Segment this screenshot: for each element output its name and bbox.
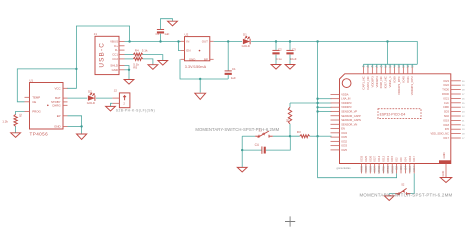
svg-text:IO4: IO4 [403, 157, 407, 162]
esp32 name tag block [439, 160, 451, 163]
svg-text:GND: GND [189, 57, 195, 61]
capacitor C4 [261, 146, 263, 153]
connector J2 pin 2 [112, 102, 119, 104]
esp32 top pin VDD3P3_CPU [411, 64, 413, 67]
ground for R5 [148, 65, 158, 70]
origin crosshair [285, 216, 295, 226]
connector J1 USB-C box [95, 36, 119, 74]
svg-text:MTDI: MTDI [382, 166, 386, 173]
junction SHLD-GND [128, 69, 130, 71]
charger pin VCC [63, 87, 68, 89]
ground for charger [77, 134, 87, 139]
esp32 right pin SD2 [451, 115, 461, 117]
svg-text:0.1u: 0.1u [276, 57, 282, 61]
svg-text:CC2: CC2 [112, 57, 118, 61]
connector J2 pin 1 [112, 97, 119, 99]
svg-text:CLK: CLK [444, 101, 449, 105]
svg-text:MTMS: MTMS [377, 166, 381, 174]
svg-text:VCC: VCC [54, 86, 60, 90]
wire R1 top to 3V3 [290, 102, 318, 104]
svg-text:RXD0: RXD0 [442, 92, 449, 96]
svg-text:TXD0: TXD0 [442, 88, 449, 92]
esp32 top pin VDD3P3 [376, 64, 378, 67]
svg-text:C2: C2 [278, 47, 282, 51]
regulator pin OUT [210, 40, 214, 42]
esp32 bottom pin IO13 [387, 164, 389, 174]
esp32 right pin IO5 [451, 128, 461, 130]
svg-text:CMD: CMD [443, 105, 449, 109]
wire R4 to ground [143, 55, 163, 61]
svg-text:IO26: IO26 [368, 155, 372, 161]
junction VDD branch 1 [316, 98, 318, 100]
wire EN tie to IN rail [179, 42, 181, 51]
junction charger TEMP/CE branch [75, 68, 77, 70]
svg-text:IO21: IO21 [443, 96, 449, 100]
svg-text:SENSOR_CAPP: SENSOR_CAPP [341, 114, 361, 118]
wire EN net to pin [318, 135, 332, 137]
esp32 right pin IO23 [451, 80, 461, 82]
wire D2 to J2 [96, 97, 113, 99]
svg-text:VDDA_1: VDDA_1 [388, 76, 392, 88]
svg-text:IO33: IO33 [341, 144, 347, 148]
junction 3V3 vertical tap [316, 40, 318, 42]
svg-text:1uF: 1uF [231, 76, 236, 80]
svg-text:GND: GND [441, 171, 445, 177]
esp32 right pin CMD [451, 106, 461, 108]
svg-text:J1: J1 [94, 32, 98, 36]
wire VDD branch 1 [318, 98, 332, 100]
esp32 U3 outline [340, 74, 451, 164]
wire to charger TEMP/CE [17, 69, 76, 102]
charger pin GND [63, 125, 68, 127]
ground for C3 [285, 65, 295, 70]
junction regulator ground net [199, 78, 201, 80]
esp32 dashed value box [378, 109, 421, 119]
svg-text:10uF: 10uF [290, 57, 297, 61]
svg-text:SENSOR_CAPN: SENSOR_CAPN [341, 118, 361, 122]
svg-text:5.1k: 5.1k [142, 48, 148, 52]
esp32 left pin VDD3P3 [331, 102, 340, 104]
esp32 bottom pin IO14 [378, 164, 380, 174]
svg-text:IO22: IO22 [443, 83, 449, 87]
svg-text:IO32: IO32 [341, 139, 347, 143]
charger pin CE [25, 101, 30, 103]
esp32 bottom pin IO17 [413, 164, 415, 174]
junction C2 tap [275, 40, 277, 42]
svg-text:C4: C4 [255, 143, 259, 147]
svg-text:IO15: IO15 [390, 155, 394, 161]
svg-text:GOLD: GOLD [242, 44, 250, 48]
resistor R2 PROG 1.2k [16, 111, 25, 114]
svg-text:CHRG: CHRG [52, 103, 61, 107]
svg-text:IO23: IO23 [443, 79, 449, 83]
wire C5 top to ground [161, 19, 173, 30]
regulator U2 box [185, 37, 210, 61]
svg-text:TP4056: TP4056 [30, 132, 49, 137]
svg-text:VDDA: VDDA [341, 92, 348, 96]
svg-text:R1: R1 [285, 118, 289, 122]
svg-text:1.2k: 1.2k [2, 120, 8, 124]
svg-text:EN: EN [341, 127, 345, 131]
svg-text:EN: EN [186, 49, 190, 53]
wire C5 to rail [160, 34, 162, 42]
ground for PROG resistor [11, 133, 21, 138]
resistor R1 pullup [289, 103, 291, 107]
wire boot pin to switch [410, 173, 414, 193]
ground for R4 [158, 61, 168, 66]
svg-text:IO12: IO12 [381, 155, 385, 161]
svg-text:IO16: IO16 [408, 165, 412, 171]
wire SHLD to GND tie [125, 66, 130, 80]
wire CC1 to R4 [125, 54, 134, 56]
switch S2 momentary [395, 193, 399, 195]
svg-text:MOMENTARY-SWITCH-SPST-PTH-6.2M: MOMENTARY-SWITCH-SPST-PTH-6.2MM [360, 193, 453, 198]
svg-text:D1: D1 [243, 32, 247, 36]
svg-text:IO0: IO0 [399, 165, 403, 170]
esp32 right pin CLK [451, 102, 461, 104]
svg-text:R4: R4 [135, 48, 139, 52]
svg-text:U2: U2 [185, 32, 189, 36]
svg-text:VDD3P3_CPU: VDD3P3_CPU [410, 76, 414, 95]
wire C4 right [266, 136, 291, 150]
wire switch S2 to ground [389, 194, 395, 196]
esp32 top pin IO37_NC [385, 64, 387, 67]
svg-text:VDD_SDIO_NC: VDD_SDIO_NC [430, 132, 449, 136]
esp32 bottom pin IO15 [391, 164, 393, 174]
svg-text:MTDO: MTDO [390, 166, 394, 174]
regulator pin GND [181, 58, 185, 60]
svg-text:EP: EP [57, 114, 61, 118]
wire comb horizontal [364, 63, 418, 65]
esp32 left pin LNA_IN [331, 98, 340, 100]
wire VDD branch 3 [318, 106, 332, 108]
svg-text:U1: U1 [29, 78, 33, 82]
svg-text:MOMENTARY-SWITCH-SPST-PTH-6.2M: MOMENTARY-SWITCH-SPST-PTH-6.2MM [195, 127, 279, 132]
svg-text:VDD3P3: VDD3P3 [375, 76, 379, 88]
esp32 right pin RXD0 [451, 93, 461, 95]
esp32 bottom pin IO4 [404, 164, 406, 174]
svg-text:IO13: IO13 [386, 155, 390, 161]
esp32 left pin SENSOR_VN [331, 123, 340, 125]
svg-text:GND: GND [54, 125, 60, 129]
capacitor C2 0.1uF [275, 42, 277, 51]
charger pin EP [63, 115, 68, 117]
svg-text:MTCK: MTCK [386, 166, 390, 174]
svg-text:VDD3P3_RTC: VDD3P3_RTC [397, 76, 401, 95]
svg-text:gomunkolas: gomunkolas [337, 166, 352, 170]
esp32 pin1 circle [342, 79, 351, 88]
svg-text:C1: C1 [232, 67, 236, 71]
capacitor C1 1uF [227, 42, 229, 71]
svg-text:IO25: IO25 [364, 165, 368, 171]
esp32 left pin SENSOR_CAPN [331, 119, 340, 121]
junction VDD branch 4 [316, 110, 318, 112]
wire VBUS from J1 to rail [125, 41, 182, 43]
esp32 top pin VDD3P3_RTC [398, 64, 400, 67]
svg-text:IO25: IO25 [341, 148, 347, 152]
svg-text:IO0: IO0 [399, 157, 403, 162]
junction EN rail [177, 40, 179, 42]
esp32 bottom pin IO12 [382, 164, 384, 174]
svg-text:IO35: IO35 [341, 135, 347, 139]
esp32 right pin IO19 [451, 119, 461, 121]
svg-text:IO27: IO27 [373, 165, 377, 171]
wire 3V3 vertical to ESP32 left [318, 42, 397, 178]
ground for S2 [384, 196, 394, 201]
connector J2 box [119, 93, 129, 108]
resistor R3 [300, 135, 310, 138]
svg-text:CE: CE [32, 100, 36, 104]
ground for C5 [168, 21, 178, 26]
esp32 right pin IO18 [451, 124, 461, 126]
esp32 right pin IO21 [451, 97, 461, 99]
svg-text:IO41: IO41 [406, 76, 410, 83]
junction EN net [316, 135, 318, 137]
esp32 left pin SENSOR_CAPP [331, 115, 340, 117]
esp32 top pin VDD3P3 [371, 64, 373, 67]
svg-text:GND: GND [442, 152, 446, 158]
capacitor C5 1uF [157, 29, 164, 31]
svg-text:IO2: IO2 [395, 165, 399, 170]
svg-text:S2: S2 [401, 183, 405, 187]
charger pin CHRG [63, 104, 68, 106]
svg-text:IO33: IO33 [360, 165, 364, 171]
wire CC2 to R5 [125, 58, 134, 60]
junction C5 rail [159, 40, 161, 42]
esp32 top pin IO38_NC [380, 64, 382, 67]
junction VBUS-charger tap [128, 40, 130, 42]
svg-text:GND: GND [112, 68, 118, 72]
resistor R4 5.1k [133, 53, 143, 56]
svg-text:OUT: OUT [202, 39, 208, 43]
led D1 [243, 39, 250, 44]
wire GND pin tie [125, 69, 130, 71]
svg-text:IO17: IO17 [412, 165, 416, 171]
svg-text:VDD3P3: VDD3P3 [341, 101, 352, 105]
ground for regulator [195, 93, 206, 99]
wire OUT rail segment [214, 41, 243, 43]
svg-text:SD3: SD3 [444, 110, 450, 114]
svg-text:IO17: IO17 [443, 136, 449, 140]
svg-text:IO27: IO27 [373, 155, 377, 161]
wire C4 left [242, 149, 262, 151]
junction C3 tap [289, 40, 291, 42]
esp32 left pin VDDA [331, 93, 340, 95]
svg-text:R2: R2 [19, 113, 23, 117]
charger U1 box [30, 83, 64, 130]
svg-text:IO26: IO26 [368, 165, 372, 171]
esp32 top pin VDDA_1 [389, 64, 391, 67]
esp32 right pin IO22 [451, 84, 461, 86]
svg-text:IO2: IO2 [395, 157, 399, 162]
svg-text:IN: IN [186, 39, 189, 43]
esp32 top pin IO39 [394, 64, 396, 67]
esp32 left pin VDD3P3 [331, 106, 340, 108]
junction comb tap [386, 40, 388, 42]
svg-text:S2B-PH-K-S(LF)(SN): S2B-PH-K-S(LF)(SN) [116, 108, 155, 112]
connector J1 pin CC1 [119, 54, 125, 56]
wire 3V3 rail [251, 42, 417, 65]
svg-text:IO18: IO18 [443, 123, 449, 127]
esp32 right pin VDD_SDIO_NC [451, 133, 461, 135]
junction C4 branch [241, 149, 243, 151]
connector J1 pin D- [119, 49, 125, 51]
wire VDD branch 2 [318, 102, 332, 104]
svg-text:1uF: 1uF [164, 32, 169, 36]
capacitor C3 10uF [289, 42, 291, 51]
esp32 right pin SD3 [451, 111, 461, 113]
svg-text:3.3V/150mA: 3.3V/150mA [185, 65, 207, 69]
wire down to ground symbol [199, 79, 201, 93]
esp32 right pin TXD0 [451, 89, 461, 91]
esp32 bottom pin IO2 [396, 164, 398, 174]
esp32 left pin EN [331, 128, 340, 130]
wire R3 to EN vertical [310, 135, 318, 137]
ground for C2 [271, 65, 281, 70]
resistor R5 5.1k [133, 57, 143, 60]
svg-text:IO17: IO17 [412, 155, 416, 161]
charger CHRG dot [47, 105, 49, 107]
svg-text:IO39: IO39 [393, 76, 397, 83]
svg-text:IO19: IO19 [443, 118, 449, 122]
esp32 bottom pin IO27 [374, 164, 376, 174]
svg-text:IO5: IO5 [445, 127, 450, 131]
esp32 left pin IO35 [331, 136, 340, 138]
regulator pin EN [181, 50, 185, 52]
led D2 [88, 95, 95, 100]
svg-text:IO34: IO34 [341, 131, 347, 135]
regulator pin IN [181, 40, 185, 42]
connector J1 pin GND [119, 69, 125, 71]
svg-text:IO40: IO40 [401, 76, 405, 83]
esp32 bottom pin IO16 [409, 164, 411, 174]
wire EP GND tie [68, 116, 82, 134]
wire VBUS up-over to charger [67, 26, 130, 88]
svg-text:BP: BP [204, 57, 208, 61]
wire reset net [242, 135, 255, 137]
esp32 left pin IO34 [331, 132, 340, 134]
wire regulator GND to ground [180, 59, 228, 79]
svg-text:IO25: IO25 [364, 155, 368, 161]
svg-text:R3: R3 [297, 130, 301, 134]
svg-text:IO33: IO33 [360, 155, 364, 161]
wire J2 pin2 to ground [111, 103, 113, 106]
svg-text:CAP2_NC: CAP2_NC [366, 76, 370, 89]
junction R1 bottom [289, 135, 291, 137]
svg-text:D-: D- [115, 48, 118, 52]
esp32 right pin IO17 [451, 137, 461, 139]
esp32 top pin IO41 [407, 64, 409, 67]
svg-text:CAP1_NC: CAP1_NC [362, 76, 366, 89]
esp32 left pin IO25 [331, 149, 340, 151]
svg-text:TEMP: TEMP [32, 95, 40, 99]
svg-text:GOLD: GOLD [87, 101, 95, 105]
svg-text:SENSOR_VP: SENSOR_VP [341, 109, 357, 113]
wire BAT to D2 [68, 97, 88, 99]
connector J1 pin SHLD [119, 65, 125, 67]
charger pin TEMP [25, 96, 30, 98]
svg-text:VDD3P3: VDD3P3 [341, 105, 352, 109]
esp32 bottom pin IO0 [400, 164, 402, 174]
esp32 bottom pin IO25 [365, 164, 367, 174]
esp32 top pin CAP1_NC [363, 64, 365, 67]
charger pin PROG [25, 110, 30, 112]
esp32 left pin IO32 [331, 140, 340, 142]
svg-text:LNA_IN: LNA_IN [341, 97, 350, 101]
svg-text:SENSOR_VN: SENSOR_VN [341, 122, 357, 126]
svg-text:ESP32-PICO-D4: ESP32-PICO-D4 [380, 112, 406, 116]
ground for J1 [124, 80, 134, 85]
ground for reset switch [237, 167, 247, 172]
esp32 bottom pin IO26 [369, 164, 371, 174]
connector J1 pin CC2 [119, 58, 125, 60]
svg-text:IO16: IO16 [408, 155, 412, 161]
esp32 top pin IO40 [402, 64, 404, 67]
svg-text:IO14: IO14 [377, 155, 381, 161]
svg-text:R5: R5 [133, 66, 137, 70]
charger pin STDBY [63, 101, 68, 103]
svg-text:IO37_NC: IO37_NC [384, 76, 388, 88]
svg-text:J2: J2 [114, 89, 118, 93]
ground for esp32 [440, 178, 452, 183]
wire reset left vertical [241, 136, 243, 167]
junction C1 tap [227, 40, 229, 42]
esp32 top pin CAP2_NC [367, 64, 369, 67]
wire VDD branch 4 [318, 111, 332, 113]
svg-text:PROG: PROG [32, 110, 41, 114]
junction charger GND [80, 125, 82, 127]
svg-text:IO4: IO4 [403, 165, 407, 170]
connector J1 pin VBUS [119, 41, 125, 43]
svg-text:IO38_NC: IO38_NC [379, 76, 383, 88]
charger pin BAT [63, 97, 68, 99]
regulator pin BP [210, 58, 214, 60]
esp32 left pin IO33 [331, 145, 340, 147]
svg-text:USB-C: USB-C [99, 42, 106, 68]
ground for J2 [106, 106, 116, 111]
wire switch to R1 junction [273, 135, 300, 137]
svg-text:SD2: SD2 [444, 114, 450, 118]
esp32 bottom pin IO33 [361, 164, 363, 174]
wire R5 to ground [143, 59, 153, 65]
connector J1 pin D+ [119, 45, 125, 47]
esp32 left pin SENSOR_VP [331, 110, 340, 112]
wire comb vertical [387, 42, 389, 65]
svg-text:D2: D2 [88, 90, 92, 94]
svg-text:VDD3P3: VDD3P3 [370, 76, 374, 88]
svg-text:C3: C3 [292, 47, 296, 51]
switch S1 momentary [255, 135, 259, 137]
svg-text:C5: C5 [155, 32, 159, 36]
wire GND pin to tie [68, 125, 82, 127]
junction VDD branch 3 [316, 106, 318, 108]
esp32 GND pin [445, 164, 447, 178]
junction VDD branch 2 / R1 tie [316, 102, 318, 104]
